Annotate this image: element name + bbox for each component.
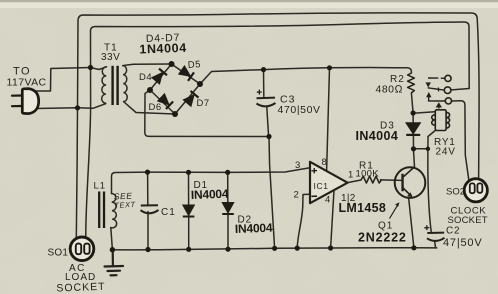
- capacitor C3: [257, 90, 276, 107]
- svg-text:47|50V: 47|50V: [443, 237, 482, 249]
- svg-text:8: 8: [322, 157, 327, 168]
- transistor Q1: [395, 167, 426, 198]
- svg-text:IC1: IC1: [314, 181, 329, 191]
- op-amp minus sign: [312, 195, 318, 197]
- relay arm up arrow: [426, 92, 431, 97]
- wire: secondary bottom lead to bridge bottom vertex: [124, 102, 175, 114]
- wire: plug bottom lead to primary bottom: [36, 104, 106, 109]
- relay arm down arrow: [426, 82, 431, 87]
- socket SO1: [70, 237, 94, 261]
- svg-text:2: 2: [294, 190, 299, 201]
- wire: bridge + output to top DC rail and down to R2: [200, 68, 411, 84]
- wire: C1 top stem: [147, 172, 149, 205]
- svg-text:SO2: SO2: [446, 187, 465, 198]
- wire: secondary top lead to bridge top vertex: [123, 64, 172, 66]
- svg-text:C1: C1: [161, 207, 176, 218]
- wire: bridge diamond edges: [150, 64, 200, 114]
- svg-text:D7: D7: [197, 98, 210, 109]
- wire: bridge - output down and rail y136 to C3 bottom then down to ground rail: [145, 90, 275, 248]
- svg-text:4: 4: [325, 195, 330, 206]
- inductor L1 winding: [111, 193, 117, 227]
- svg-text:24V: 24V: [436, 147, 456, 158]
- op-amp plus sign: [312, 168, 318, 173]
- svg-text:3: 3: [295, 160, 300, 171]
- transformer T1 secondary winding: [123, 66, 127, 102]
- wire: D1 branch: [188, 172, 190, 249]
- diode D7: [183, 91, 198, 106]
- transformer T1 primary winding: [102, 67, 107, 103]
- svg-text:TEXT: TEXT: [114, 200, 137, 210]
- capacitor C2: [424, 225, 444, 241]
- relay common arm: [428, 88, 444, 90]
- wire: op-amp pin 2 to ground rail: [297, 194, 310, 248]
- wire: C2 bottom stem: [435, 241, 436, 248]
- wire: signal rail y172 from L1 top to op-amp pin 3: [112, 168, 311, 194]
- svg-text:117VAC: 117VAC: [7, 77, 47, 89]
- diode D2: [222, 203, 234, 215]
- relay arm lower link: [429, 97, 445, 101]
- wire: collector node down to C2 plus: [428, 149, 431, 232]
- wire: plug top lead up to hot node: [35, 67, 107, 91]
- Q1 base bar: [401, 174, 404, 191]
- svg-text:SO1: SO1: [48, 248, 69, 259]
- svg-text:SOCKET: SOCKET: [448, 215, 488, 226]
- svg-text:SOCKET: SOCKET: [56, 281, 106, 294]
- wire: C1 bottom stem: [147, 212, 149, 250]
- socket SO2 clock: [464, 179, 487, 202]
- wire: ground rail (bottom): [112, 248, 436, 250]
- svg-text:1N4004: 1N4004: [139, 41, 187, 57]
- svg-text:D4: D4: [139, 72, 152, 83]
- wire: AC hot - right slot vertical, inner top rail, down right to relay common: [86, 22, 469, 239]
- diode D6: [158, 94, 174, 109]
- svg-text:L1: L1: [94, 181, 107, 192]
- relay contact circles: [444, 75, 451, 104]
- inductor L1 core: [99, 192, 104, 229]
- wire: R1 to Q1 base: [381, 179, 403, 182]
- diode D5: [179, 66, 194, 81]
- svg-text:2N2222: 2N2222: [358, 231, 407, 245]
- svg-text:1: 1: [348, 170, 353, 181]
- resistor R1: [361, 176, 382, 183]
- AC plug: [12, 89, 39, 114]
- wire: relay coil bottom lead down and left to collector node: [414, 131, 436, 149]
- wire: C3 negative stem: [267, 107, 269, 137]
- transformer T1 core: [113, 66, 118, 105]
- diode D3: [406, 123, 421, 135]
- wire: D2 branch: [227, 172, 229, 249]
- wire: op-amp output to R1: [348, 180, 361, 183]
- wire: D3 anode stem: [412, 113, 414, 123]
- wire: op-amp pin 8 to + rail: [327, 68, 330, 171]
- resistor R2: [408, 73, 415, 93]
- wire: relay NO contact to clock socket left: [452, 101, 469, 181]
- wire: relay coil top lead: [413, 112, 435, 113]
- Q1 emitter inside with arrow: [403, 188, 412, 197]
- relay contact arm NC stub: [428, 77, 445, 79]
- svg-text:C2: C2: [446, 226, 460, 237]
- svg-text:470|50V: 470|50V: [278, 104, 321, 116]
- svg-text:D6: D6: [149, 102, 162, 113]
- wire: C3 positive stem: [263, 70, 265, 97]
- wire: Q1 collector lead: [413, 149, 414, 167]
- plug prong top: [12, 94, 22, 96]
- svg-text:IN4004: IN4004: [356, 129, 399, 143]
- svg-text:33V: 33V: [101, 52, 120, 63]
- capacitor C1: [141, 205, 159, 213]
- wire: op-amp pin 4 to ground rail: [331, 190, 334, 248]
- Q1 pointer arrow: [390, 205, 399, 219]
- wire: AC neutral - left vertical, top outer rail, right side down to clock socket: [76, 13, 479, 239]
- ground symbol: [105, 250, 124, 275]
- svg-text:LM1458: LM1458: [339, 201, 387, 215]
- wire: R2 bottom to D3 anode node: [411, 93, 413, 113]
- Q1 collector inside: [403, 167, 415, 178]
- op-amp U1 triangle: [310, 162, 348, 203]
- relay RY1 coil: [432, 110, 450, 131]
- svg-text:IN4004: IN4004: [235, 221, 273, 236]
- wire: D3 cathode to collector node: [412, 135, 414, 149]
- wire: Q1 emitter lead to ground rail: [409, 198, 414, 248]
- plug prong bottom: [12, 105, 22, 107]
- relay mechanical link dashes: [437, 88, 441, 109]
- svg-text:100K: 100K: [356, 169, 380, 180]
- wire: L1 bottom to ground rail: [111, 228, 113, 250]
- diode D4: [152, 69, 167, 84]
- svg-text:IN4004: IN4004: [191, 187, 229, 202]
- svg-text:D5: D5: [187, 59, 201, 71]
- svg-text:480Ω: 480Ω: [376, 84, 404, 96]
- diode D1: [183, 205, 195, 217]
